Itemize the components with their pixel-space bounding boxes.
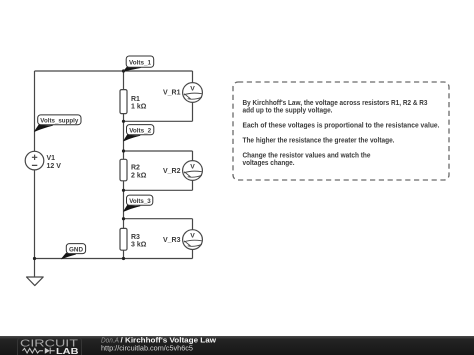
svg-text:3 kΩ: 3 kΩ (131, 242, 147, 249)
footer title text (101, 338, 217, 353)
svg-text:Volts_2: Volts_2 (129, 128, 151, 135)
resistor R1 (120, 90, 147, 114)
svg-text:V_R1: V_R1 (163, 89, 181, 96)
svg-text:2 kΩ: 2 kΩ (131, 172, 147, 179)
wire middle vertical segment 4 (123, 250, 125, 258)
wire left vertical upper (34, 71, 36, 151)
svg-text:By Kirchhoff's Law, the voltag: By Kirchhoff's Law, the voltage across r… (243, 100, 428, 107)
wire loop3 top horizontal (124, 218, 193, 220)
wire loop2 bottom horizontal (124, 189, 193, 191)
svg-text:V: V (190, 232, 195, 239)
voltmeter V_R3 (163, 230, 202, 250)
annotation box (233, 82, 449, 180)
voltmeter V_R1 (163, 83, 202, 103)
wire middle vertical segment 2 (123, 114, 125, 160)
ground (27, 277, 44, 286)
svg-text:http://circuitlab.com/c5vh6c5: http://circuitlab.com/c5vh6c5 (101, 346, 193, 353)
wire right vertical V_R2 (192, 151, 194, 190)
svg-text:Volts_supply: Volts_supply (40, 118, 78, 125)
node Volts_3 flag (124, 195, 153, 211)
voltage source V1 (25, 151, 61, 170)
svg-text:Volts_1: Volts_1 (129, 60, 151, 67)
node Volts_supply flag (35, 115, 81, 131)
wire bottom horizontal (35, 258, 193, 260)
wire loop1 bottom horizontal (124, 120, 193, 122)
svg-text:The higher the resistance the: The higher the resistance the greater th… (243, 138, 395, 145)
wire middle vertical segment 3 (123, 181, 125, 229)
voltmeter V_R2 (163, 161, 202, 181)
svg-text:V_R2: V_R2 (163, 168, 181, 175)
footer logo CIRCUIT LAB (20, 339, 79, 355)
wire top horizontal (35, 70, 193, 72)
svg-text:LAB: LAB (56, 346, 79, 355)
svg-text:V: V (190, 85, 195, 92)
svg-text:Volts_3: Volts_3 (129, 198, 151, 205)
footer bar (0, 336, 474, 355)
resistor R2 (120, 159, 147, 181)
svg-text:/ Kirchhoff's Voltage Law: / Kirchhoff's Voltage Law (121, 338, 217, 345)
svg-text:GND: GND (69, 247, 83, 254)
wire loop2 top horizontal (124, 150, 193, 152)
svg-text:voltages change.: voltages change. (243, 160, 295, 167)
node Volts_1 flag (124, 56, 154, 71)
svg-text:R1: R1 (131, 96, 140, 103)
resistor R3 (120, 228, 147, 250)
svg-text:Each of these voltages is prop: Each of these voltages is proportional t… (243, 123, 440, 130)
svg-text:Don.A: Don.A (101, 338, 119, 345)
svg-text:add up to the supply voltage.: add up to the supply voltage. (243, 108, 333, 115)
wire right vertical V_R3 (192, 219, 194, 259)
node Volts_2 flag (124, 125, 154, 141)
svg-text:Change the resistor values and: Change the resistor values and watch the (243, 153, 371, 160)
svg-text:R3: R3 (131, 234, 140, 241)
svg-text:12 V: 12 V (47, 163, 62, 170)
svg-text:V1: V1 (47, 155, 56, 162)
node junction dots (33, 69, 125, 260)
svg-text:V: V (190, 163, 195, 170)
wire left vertical lower (34, 170, 36, 277)
node GND flag (62, 244, 86, 259)
svg-text:R2: R2 (131, 165, 140, 172)
svg-text:1 kΩ: 1 kΩ (131, 104, 147, 111)
wire right vertical V_R1 (192, 71, 194, 121)
wire middle vertical segment 1 (123, 71, 125, 90)
svg-text:V_R3: V_R3 (163, 237, 181, 244)
